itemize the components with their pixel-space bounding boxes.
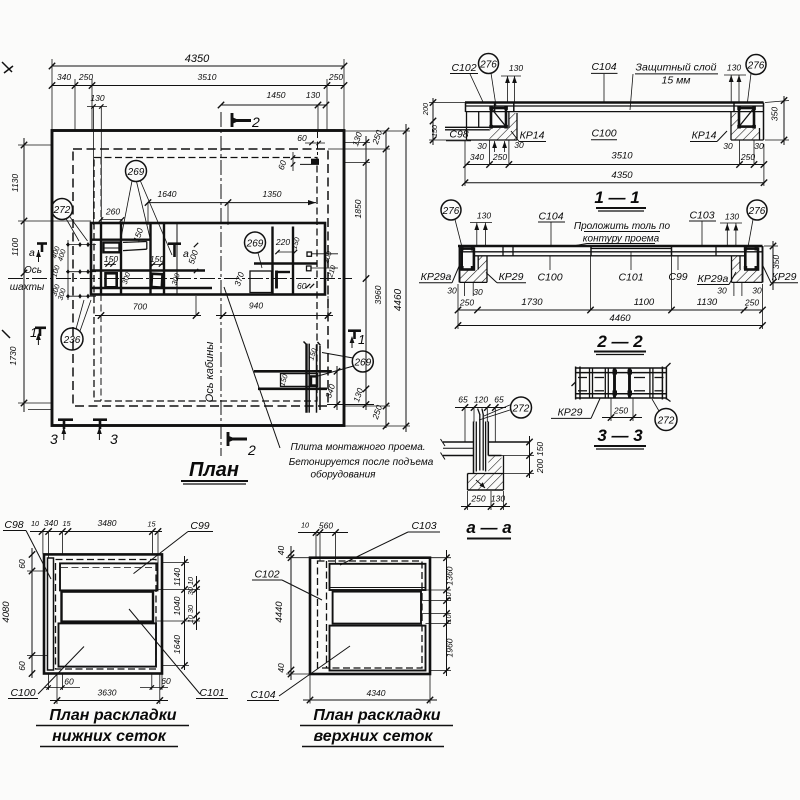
svg-text:1040: 1040 <box>172 596 182 615</box>
svg-text:10 30: 10 30 <box>186 605 195 623</box>
callout circle 276 left <box>479 54 499 74</box>
right vertical dim line 3 <box>405 124 407 432</box>
svg-text:340: 340 <box>57 72 71 82</box>
rebar section ticks <box>494 103 496 112</box>
slab lines <box>443 441 474 443</box>
svg-text:1350: 1350 <box>263 189 282 199</box>
svg-text:1730: 1730 <box>521 297 543 308</box>
plan bottom-right rebar detail <box>254 342 374 413</box>
section flag 1 right <box>348 329 361 332</box>
svg-text:3510: 3510 <box>198 72 217 82</box>
dim row 4460 <box>458 325 763 327</box>
slab rebar line <box>465 105 764 107</box>
callout circle 269 (band) <box>245 232 266 253</box>
dim 1450/130 <box>221 104 326 106</box>
axis line Os kabiny (vertical centerline) <box>220 112 222 456</box>
rebar bar horizontal 2 <box>91 269 205 271</box>
svg-text:40: 40 <box>276 663 286 673</box>
svg-text:250: 250 <box>744 298 759 308</box>
svg-text:С102: С102 <box>254 569 279 581</box>
svg-text:340: 340 <box>323 383 337 400</box>
svg-text:250: 250 <box>328 72 343 82</box>
svg-text:272: 272 <box>53 205 71 216</box>
mesh bottom band <box>59 623 157 666</box>
hatch right wall <box>732 256 741 270</box>
callout circle 276 left (2-2) <box>441 200 461 220</box>
right dim line 1140/1040/1640 <box>184 556 186 670</box>
plan top-right corner detail <box>276 131 325 171</box>
svg-text:350: 350 <box>771 255 781 269</box>
svg-text:10: 10 <box>301 521 309 530</box>
svg-text:План раскладки: План раскладки <box>313 707 440 724</box>
rebar bar horizontal 1 <box>91 238 151 240</box>
svg-text:130: 130 <box>350 131 364 148</box>
svg-text:10: 10 <box>31 519 39 528</box>
svg-text:С100: С100 <box>591 128 616 140</box>
callout circle 269 upper <box>121 161 172 256</box>
extra dashed mesh line <box>100 158 102 402</box>
small dim lines 400/100/300 <box>66 244 96 246</box>
rebar bar horizontal 2 <box>258 387 327 390</box>
svg-text:КР29а: КР29а <box>698 273 729 285</box>
slab bottom chord <box>474 255 745 257</box>
svg-text:150: 150 <box>430 125 439 137</box>
svg-text:1640: 1640 <box>172 635 182 654</box>
svg-text:150: 150 <box>277 373 289 387</box>
dim 1640/1350 <box>148 202 316 204</box>
svg-text:200: 200 <box>535 459 545 474</box>
svg-text:30: 30 <box>477 141 487 151</box>
mid rebar dashes bottom <box>578 390 587 392</box>
callout circle 236 <box>61 328 83 350</box>
svg-text:КР29: КР29 <box>499 271 524 283</box>
section marker a (in band) <box>168 242 181 245</box>
svg-text:С100: С100 <box>10 687 35 699</box>
dims row 250/1730/1100/1130/250 <box>458 309 763 311</box>
anchor bar thick <box>275 271 278 289</box>
hatch left wall <box>478 256 487 270</box>
svg-text:700: 700 <box>133 302 147 312</box>
mesh C98 lines <box>445 126 490 128</box>
small embed square 2 <box>307 266 312 271</box>
svg-text:30: 30 <box>723 141 733 151</box>
svg-text:2: 2 <box>251 114 260 130</box>
ladder inner verticals <box>589 368 591 398</box>
svg-text:370: 370 <box>232 271 246 288</box>
svg-text:4460: 4460 <box>609 313 631 324</box>
svg-text:560: 560 <box>319 521 333 531</box>
rebar verticals with hooks <box>479 414 481 471</box>
svg-text:65: 65 <box>458 395 468 405</box>
ext lines to rotated labels <box>312 253 338 255</box>
svg-text:С104: С104 <box>538 211 563 223</box>
svg-text:236: 236 <box>63 335 81 346</box>
svg-text:1960: 1960 <box>445 638 455 657</box>
right ext horizontals <box>344 130 410 132</box>
svg-text:130: 130 <box>351 387 365 404</box>
callout circle 269 (bottom) <box>352 351 373 372</box>
svg-text:250: 250 <box>78 72 93 82</box>
svg-text:60: 60 <box>17 661 27 671</box>
svg-text:План: План <box>189 459 239 481</box>
stirrup KP14 right <box>739 108 754 127</box>
svg-text:30: 30 <box>447 286 457 296</box>
svg-text:С100: С100 <box>537 272 562 284</box>
section cut line a <box>176 223 178 295</box>
plan inner dashed contour <box>94 158 317 402</box>
slab rebar line <box>459 251 762 253</box>
ladder top rails <box>576 367 667 369</box>
svg-text:200: 200 <box>421 103 430 116</box>
svg-text:2 — 2: 2 — 2 <box>596 332 643 351</box>
svg-text:250: 250 <box>613 406 628 416</box>
svg-text:4350: 4350 <box>611 170 633 181</box>
right dims 1360/10/10/1960 <box>446 550 448 676</box>
svg-text:250: 250 <box>492 152 507 162</box>
left main dim line <box>23 138 25 412</box>
leader to note text <box>224 287 280 448</box>
svg-text:1130: 1130 <box>697 297 718 308</box>
svg-text:200: 200 <box>321 250 334 265</box>
slab top chord <box>458 245 763 248</box>
svg-text:30 10: 30 10 <box>186 577 195 595</box>
svg-text:С103: С103 <box>411 520 436 532</box>
svg-text:3: 3 <box>50 431 58 447</box>
svg-text:3 — 3: 3 — 3 <box>597 426 643 445</box>
mesh C103 band <box>330 564 426 590</box>
svg-text:272: 272 <box>657 416 675 427</box>
center thick bars <box>613 369 616 398</box>
mesh strip symbol <box>123 241 147 244</box>
svg-text:276: 276 <box>747 61 765 72</box>
plan outer dashed contour <box>73 149 328 406</box>
rebar bar vertical 1 <box>100 223 102 295</box>
dim 350 right <box>783 96 785 145</box>
mesh rect <box>281 374 318 387</box>
svg-text:60: 60 <box>161 676 171 686</box>
svg-text:С104: С104 <box>250 689 275 701</box>
rebar bar vertical 5 <box>271 227 273 295</box>
svg-text:1100: 1100 <box>634 297 655 308</box>
dim row 4350 <box>465 182 764 184</box>
svg-text:15 мм: 15 мм <box>662 75 691 87</box>
svg-text:3510: 3510 <box>611 151 633 162</box>
step hatch <box>488 456 501 474</box>
dashed contour <box>56 560 157 670</box>
ext line <box>327 404 374 406</box>
hatch left wall <box>509 113 517 128</box>
dashed contour <box>318 561 423 668</box>
section flag 2 bottom <box>227 432 230 446</box>
svg-text:30: 30 <box>717 286 727 296</box>
callout circle 276 right (2-2) <box>747 200 767 220</box>
dim 340 rotated <box>336 366 338 410</box>
svg-text:60: 60 <box>297 133 307 143</box>
svg-text:269: 269 <box>353 358 371 369</box>
svg-text:940: 940 <box>249 301 263 311</box>
svg-text:4340: 4340 <box>367 688 386 698</box>
svg-text:30: 30 <box>752 286 762 296</box>
svg-text:3960: 3960 <box>373 285 383 304</box>
svg-text:КР29: КР29 <box>558 407 583 419</box>
dim 4350 top <box>52 65 344 67</box>
svg-text:120: 120 <box>474 395 488 405</box>
plan band internal rebar: left detail <box>91 223 212 295</box>
svg-text:1850: 1850 <box>353 199 363 218</box>
ext line bottom left <box>28 409 52 411</box>
rebar section ticks <box>502 246 504 256</box>
svg-text:Бетонируется после подъема: Бетонируется после подъема <box>289 457 434 468</box>
left wall outline <box>459 246 461 282</box>
svg-text:оборудования: оборудования <box>310 469 376 481</box>
svg-text:15: 15 <box>62 519 71 528</box>
svg-text:269: 269 <box>127 167 145 178</box>
svg-text:340: 340 <box>470 152 484 162</box>
proem edge ticks <box>590 246 592 256</box>
svg-text:250: 250 <box>459 298 474 308</box>
svg-text:С104: С104 <box>591 61 616 73</box>
svg-text:130: 130 <box>725 212 739 222</box>
small embed square 1 <box>307 252 312 256</box>
plan outer wall rectangle <box>52 131 344 426</box>
svg-text:верхних сеток: верхних сеток <box>314 728 434 745</box>
svg-text:300: 300 <box>169 272 181 286</box>
svg-text:150: 150 <box>104 254 118 264</box>
svg-text:30: 30 <box>514 140 524 150</box>
svg-text:1730: 1730 <box>8 346 18 365</box>
slab right edge <box>763 103 765 141</box>
svg-text:1360: 1360 <box>445 566 455 585</box>
svg-text:40: 40 <box>276 546 286 556</box>
mid rebar dashes top <box>578 377 587 379</box>
svg-text:15: 15 <box>147 520 156 529</box>
mesh outline <box>250 271 272 293</box>
svg-text:1130: 1130 <box>10 174 20 193</box>
svg-text:1640: 1640 <box>158 189 177 199</box>
slab outline <box>44 554 162 673</box>
svg-text:4080: 4080 <box>1 601 12 623</box>
svg-text:150: 150 <box>289 236 301 250</box>
hook marks right <box>666 363 670 367</box>
footing outline <box>467 474 469 491</box>
svg-text:С103: С103 <box>689 210 714 222</box>
rebar bar vertical 6 <box>292 227 294 295</box>
rebar bar horizontal right <box>254 262 317 264</box>
svg-text:шахты: шахты <box>10 282 45 293</box>
left thickness dims 200/150 <box>432 98 434 145</box>
callout circle 276 right <box>746 55 766 75</box>
section flag 2 top <box>231 113 234 127</box>
svg-text:С101: С101 <box>618 272 643 284</box>
left dim 40/4440/40 <box>290 546 292 680</box>
callout circle 272 left <box>52 199 73 220</box>
svg-text:250: 250 <box>740 152 755 162</box>
svg-text:4460: 4460 <box>393 288 404 311</box>
svg-text:1: 1 <box>358 332 365 347</box>
svg-text:60: 60 <box>297 281 307 291</box>
margin marks <box>2 62 12 72</box>
section flag 3 left <box>58 418 73 421</box>
svg-text:130: 130 <box>477 211 491 221</box>
svg-text:130: 130 <box>727 63 741 73</box>
callout circle 272 (a-a) <box>511 397 532 418</box>
svg-text:нижних сеток: нижних сеток <box>52 728 167 745</box>
rebar bar horizontal 1 <box>254 370 332 373</box>
svg-text:Защитный слой: Защитный слой <box>636 62 717 74</box>
svg-text:С99: С99 <box>190 520 209 532</box>
svg-text:340: 340 <box>44 518 58 528</box>
slab bottom chord <box>466 111 764 113</box>
svg-text:250: 250 <box>470 494 485 504</box>
channel walls <box>473 422 475 474</box>
right wall outline <box>762 246 764 282</box>
embed square thick <box>311 376 317 385</box>
embedded plate 1 <box>103 243 119 253</box>
stirrup KP29a right <box>745 249 758 270</box>
embedded plate 2 <box>106 273 117 287</box>
svg-text:1140: 1140 <box>172 568 182 587</box>
svg-text:272: 272 <box>512 404 530 415</box>
svg-text:30: 30 <box>754 141 764 151</box>
svg-text:210: 210 <box>325 264 338 279</box>
svg-text:2: 2 <box>247 442 256 458</box>
svg-text:3: 3 <box>110 431 118 447</box>
black embed square <box>311 159 319 164</box>
svg-text:3630: 3630 <box>98 688 117 698</box>
svg-text:1450: 1450 <box>267 90 286 100</box>
dims row 340/250/3510/250 <box>467 164 764 166</box>
rebar bar vertical 3 <box>149 223 151 295</box>
svg-text:60: 60 <box>17 559 27 569</box>
stirrup KP29a left <box>462 249 474 270</box>
svg-text:276: 276 <box>748 206 766 217</box>
svg-text:60: 60 <box>64 677 74 687</box>
mesh C98 strip <box>48 558 54 670</box>
svg-text:С98: С98 <box>4 519 23 531</box>
left dim 60/4080/60 <box>31 548 33 678</box>
slab outline <box>310 558 430 674</box>
break marks left <box>441 439 446 446</box>
stirrup KP14 left <box>491 108 506 127</box>
svg-text:С102: С102 <box>451 62 476 74</box>
plan left small dimension cluster <box>49 240 96 301</box>
ladder bottom rails <box>576 393 667 395</box>
right vertical dim line 1 <box>365 136 367 410</box>
mesh middle band <box>333 592 421 624</box>
svg-text:60: 60 <box>276 159 289 171</box>
slab top chord <box>465 101 764 104</box>
svg-text:350: 350 <box>770 107 780 121</box>
svg-text:260: 260 <box>105 207 120 217</box>
svg-text:С98: С98 <box>449 129 468 141</box>
svg-text:КР29: КР29 <box>772 271 797 283</box>
mesh C102 strip dashed <box>326 561 328 668</box>
section flag 3 right <box>93 418 107 421</box>
svg-text:4440: 4440 <box>274 601 285 623</box>
dim 350 right (2-2) <box>772 241 774 290</box>
svg-text:1100: 1100 <box>10 238 20 257</box>
shaft opening band <box>91 223 325 295</box>
mesh middle band <box>62 592 154 622</box>
rebar bar vertical 2 <box>120 223 122 295</box>
left wall outline <box>466 112 468 140</box>
svg-text:КР29а: КР29а <box>421 271 452 283</box>
svg-text:130: 130 <box>509 63 523 73</box>
svg-text:30: 30 <box>473 287 483 297</box>
svg-text:276: 276 <box>479 60 497 71</box>
svg-text:269: 269 <box>246 239 264 250</box>
right vertical dim line 2 <box>385 130 387 428</box>
svg-text:а: а <box>29 247 35 259</box>
svg-text:130: 130 <box>306 90 320 100</box>
ladder end verticals <box>575 367 577 400</box>
svg-text:контуру проема: контуру проема <box>583 234 660 245</box>
ext verticals top <box>51 59 53 130</box>
svg-text:а — а: а — а <box>466 518 511 537</box>
rebar bar horizontal 3 <box>91 287 212 289</box>
arrow in hatch <box>476 480 485 488</box>
slab left edge <box>465 103 467 113</box>
svg-text:Плита монтажного проема.: Плита монтажного проема. <box>290 442 425 453</box>
svg-text:4350: 4350 <box>185 53 210 65</box>
svg-text:1 — 1: 1 — 1 <box>594 188 639 207</box>
rebar bar vertical 4 <box>163 223 165 295</box>
right wall outline <box>730 112 732 140</box>
hook bars vertical pair <box>305 344 307 413</box>
svg-text:65: 65 <box>494 395 504 405</box>
right vdim 150/200 <box>529 436 531 478</box>
svg-text:220: 220 <box>275 237 290 247</box>
svg-text:150: 150 <box>535 442 545 456</box>
svg-text:С101: С101 <box>199 687 224 699</box>
right dim line 30/10 <box>196 576 198 630</box>
svg-text:276: 276 <box>442 206 460 217</box>
svg-text:10: 10 <box>444 592 453 600</box>
svg-text:Ось кабины: Ось кабины <box>204 342 216 403</box>
svg-text:10: 10 <box>444 614 453 622</box>
callout circle 272 (3-3) <box>655 409 677 431</box>
plan band internal rebar: right detail <box>232 227 338 295</box>
svg-text:План раскладки: План раскладки <box>49 707 176 724</box>
mesh C104 band <box>330 626 426 671</box>
svg-text:КР14: КР14 <box>692 130 717 142</box>
dashed ext vertical <box>317 131 319 155</box>
dim row 340/250/3510/250 <box>52 85 344 87</box>
svg-text:Проложить толь по: Проложить толь по <box>574 221 671 232</box>
embedded plate 3 <box>151 274 162 288</box>
axis line Os shahty (horizontal centerline) <box>8 278 352 280</box>
hatch right wall <box>731 113 739 128</box>
mesh C99 band <box>60 563 158 590</box>
svg-text:3480: 3480 <box>98 518 117 528</box>
svg-text:130: 130 <box>90 93 104 103</box>
